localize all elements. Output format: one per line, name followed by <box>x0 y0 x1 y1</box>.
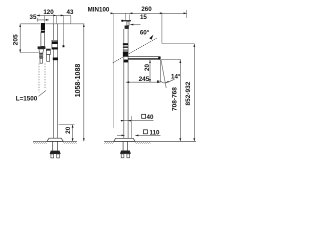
column band below spout <box>123 60 128 63</box>
ext line x70.8 <box>70 15 72 23</box>
svg-text:20: 20 <box>144 64 151 71</box>
ext stub 186.7 <box>186 10 188 18</box>
column band c <box>123 50 128 51</box>
dim line 35 <box>37 19 49 21</box>
svg-text:43: 43 <box>67 9 74 16</box>
column band spout root <box>123 52 128 57</box>
hose stem <box>40 58 43 63</box>
elbow lower <box>47 55 50 62</box>
column right edge <box>57 24 59 138</box>
spout bottom thick <box>128 58 160 59</box>
dim line 708-768 <box>179 60 181 142</box>
angle arrow on slant <box>165 81 169 83</box>
base plate left <box>47 138 63 141</box>
dim 20 arrow under spout <box>149 60 151 63</box>
lever neck <box>127 21 129 25</box>
ext line x53.6 <box>53 15 55 23</box>
base plate right <box>114 138 135 141</box>
svg-text:260: 260 <box>141 6 152 13</box>
svg-text:MIN100: MIN100 <box>88 7 110 14</box>
arrow right tip 56.3 <box>53 14 56 16</box>
dim line top (120/43) <box>37 14 71 16</box>
label sq40 square <box>142 114 146 118</box>
handshower body <box>41 33 45 47</box>
tick x37.8 <box>37 18 39 22</box>
svg-text:245: 245 <box>139 76 150 83</box>
diverter housing <box>52 40 58 49</box>
ext line y43.6 <box>162 43 194 45</box>
ext line 1058 top <box>45 23 84 25</box>
ext line x131.3 <box>130 116 132 138</box>
holder cone <box>39 49 44 53</box>
svg-text:40: 40 <box>147 114 154 121</box>
arrow down 20 <box>72 138 74 141</box>
dim 20 line under spout <box>149 60 151 82</box>
ext line x63.5 to spout mouth <box>63 15 65 45</box>
ext col center 125.7 <box>125 13 127 20</box>
column band b <box>123 46 128 48</box>
arrow right tip 163 <box>160 12 163 14</box>
housing dark top band <box>52 41 58 44</box>
arrow up 852 <box>193 44 195 47</box>
dim line 20 <box>72 125 74 142</box>
floor hatch right b <box>135 142 151 144</box>
spout vertical ref line <box>159 60 161 82</box>
column band a <box>123 43 128 45</box>
arrow down 708 <box>179 138 181 141</box>
dim 205 line <box>19 24 21 53</box>
svg-text:60°: 60° <box>140 30 150 37</box>
flange nut left <box>50 151 61 154</box>
leader 110 <box>135 134 160 136</box>
dim line 1058-1088 <box>83 24 85 141</box>
shank below floor left <box>53 141 58 150</box>
dim line 852-932 <box>193 44 195 142</box>
hose nut striped <box>39 53 43 58</box>
tab right a <box>121 154 124 158</box>
floor line right <box>104 140 196 142</box>
arrow left tip 129.3 <box>129 12 132 14</box>
arrow right 245 <box>157 81 160 83</box>
shank below floor right <box>123 141 128 150</box>
ext line 205 top <box>20 23 40 25</box>
elbow top dark <box>46 49 50 51</box>
svg-text:15: 15 <box>140 14 147 21</box>
spout top line <box>128 56 160 58</box>
floor hatch left a <box>33 142 47 144</box>
spout tip <box>158 57 160 60</box>
arrow down 852 <box>193 138 195 141</box>
ext line x56.5 <box>56 15 58 23</box>
lever knob end <box>121 20 123 22</box>
swivel arrowhead <box>149 35 153 40</box>
top dim line right <box>111 12 187 14</box>
svg-text:20: 20 <box>65 126 72 134</box>
dashed swivel line <box>113 38 157 63</box>
svg-text:708-768: 708-768 <box>171 87 178 111</box>
angle arrow on vertical <box>157 80 160 82</box>
arrow left tip 130.2 <box>130 24 133 26</box>
dim 205 bottom arrow <box>19 49 21 52</box>
hose dashed left <box>38 64 40 93</box>
svg-text:35: 35 <box>30 14 37 21</box>
handshower head separator <box>41 29 44 32</box>
wall line <box>113 14 115 129</box>
leader 40 <box>121 119 154 121</box>
arrow right tip 48.8 <box>46 19 49 21</box>
svg-text:1058-1088: 1058-1088 <box>75 64 82 98</box>
arrow left 245 <box>126 81 129 83</box>
arrow right tip 186.7 <box>184 12 187 14</box>
arrow 40 outside-left <box>121 120 124 122</box>
floor hatch right a <box>104 142 114 144</box>
cartridge cap <box>125 26 129 29</box>
dim 205 top arrow <box>19 24 21 27</box>
elbow block <box>46 49 50 55</box>
column left edge <box>53 24 55 138</box>
column right fig left edge <box>123 29 125 138</box>
svg-text:14°: 14° <box>171 74 181 81</box>
L=1500 leader <box>39 91 46 97</box>
dim 20 bottom arrow <box>149 79 151 82</box>
ext line 205 bottom <box>20 52 39 54</box>
angle arc 14 <box>160 79 174 83</box>
svg-text:205: 205 <box>13 34 20 45</box>
hose dashed right <box>44 64 46 90</box>
housing dark bottom band <box>52 47 58 49</box>
svg-text:120: 120 <box>43 9 54 16</box>
column black band <box>53 58 58 61</box>
dim 245 line <box>126 81 160 83</box>
arrow up 20 <box>72 125 74 128</box>
floor line left <box>33 140 77 142</box>
tab left b <box>57 154 60 158</box>
ext 161.9 down to 43.6 <box>161 12 163 43</box>
column right fig right edge <box>127 29 129 138</box>
tab left a <box>51 154 54 158</box>
leader 110 left segment <box>117 134 125 136</box>
arrow 110 left segment <box>122 135 125 137</box>
svg-text:852-932: 852-932 <box>185 81 192 105</box>
ext line 20 top <box>59 124 75 126</box>
handshower head <box>41 23 45 33</box>
tab right b <box>127 154 130 158</box>
arrow up 1058 <box>83 24 85 27</box>
arrow right tip 63.8 <box>61 14 64 16</box>
leader 15 <box>130 24 140 26</box>
flange nut right <box>120 151 131 154</box>
ext lever tip 129.3 <box>128 15 130 22</box>
spout 14deg slant line <box>161 60 166 88</box>
lever handle <box>121 20 131 21</box>
ext line x44.6 <box>44 15 46 22</box>
label sq110 square <box>144 130 148 134</box>
holder arm <box>38 46 46 49</box>
floor hatch left b <box>63 142 77 144</box>
arrow up 708 <box>179 60 181 63</box>
arrow left tip 36.6 <box>37 14 40 16</box>
spout mouth dot <box>63 45 65 47</box>
arrow 110 <box>135 134 138 136</box>
ext line spout underside <box>161 59 181 61</box>
arrow down 1058 <box>83 138 85 141</box>
arrow 40 outside-right <box>128 120 131 122</box>
arrow right tip 113.7 <box>111 12 114 14</box>
svg-text:L=1500: L=1500 <box>16 96 38 103</box>
